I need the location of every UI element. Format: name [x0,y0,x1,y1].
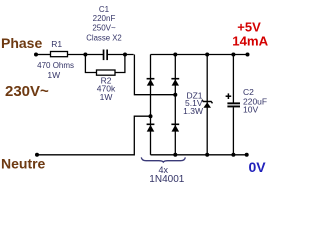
diode D1 bridge left upper [147,79,155,86]
diode D2 bridge right upper [171,79,179,86]
wire DZ1 branch [206,55,208,155]
wire C2 branch top [232,55,234,103]
wire top rail +5V [151,54,248,56]
svg-text:R1: R1 [51,39,62,49]
node AC1 on right bridge branch [173,93,177,97]
svg-text:0V: 0V [249,159,267,175]
brace 4x diodes [141,157,185,162]
node Phase terminal [34,53,38,57]
node bottom rail bridge right [173,153,177,157]
wire C1 to node B [108,54,134,56]
resistor R1 [51,52,68,57]
node Neutre terminal [35,153,39,157]
capacitor C2 polarized [227,102,240,107]
node bottom rail C2 [231,153,235,157]
wire bridge right branch [174,55,176,155]
resistor R2 [97,70,116,75]
svg-text:230V~: 230V~ [5,83,49,100]
svg-text:470 Ohms: 470 Ohms [37,61,74,70]
wire bridge left branch [150,55,152,155]
wire Phase to R1 [36,54,51,56]
svg-text:1N4001: 1N4001 [149,174,184,185]
node +5V terminal [246,53,250,57]
svg-text:Neutre: Neutre [1,156,46,172]
svg-text:Classe X2: Classe X2 [86,34,122,43]
svg-text:Phase: Phase [1,35,42,51]
diode D3 bridge left lower [147,124,155,131]
wire C2 branch bottom [232,107,234,155]
node bottom rail DZ1 [205,153,209,157]
svg-text:1W: 1W [47,70,60,80]
zener diode DZ1 [202,100,213,108]
node top rail bridge right [173,53,177,57]
wire R1 to node A [68,54,104,56]
wire R2 branch right [115,55,125,73]
node 0V terminal [245,153,249,157]
capacitor C1 [103,50,108,61]
wire AC1 drop (phase to bridge) [134,55,175,95]
node top rail C2 [231,53,235,57]
node top rail DZ1 [205,53,209,57]
plus sign of C2 [226,93,232,99]
diode D4 bridge right lower [171,124,179,131]
wire Neutre to bridge [37,116,151,155]
wire R2 branch left [85,55,96,73]
svg-text:C1: C1 [99,5,110,14]
node AC2 on left bridge branch [149,114,153,118]
svg-text:1.3W: 1.3W [183,106,203,116]
node B [123,53,127,57]
svg-text:250V~: 250V~ [92,24,116,33]
svg-text:14mA: 14mA [232,33,268,48]
svg-text:10V: 10V [243,105,258,115]
node A [83,53,87,57]
svg-text:220nF: 220nF [93,14,116,23]
wire bottom rail 0V [151,154,247,156]
svg-text:1W: 1W [100,92,113,102]
